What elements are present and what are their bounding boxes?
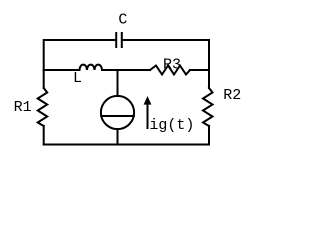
resistor R1 bbox=[38, 88, 48, 126]
svg-text:L: L bbox=[73, 70, 82, 87]
wire bottom rail bbox=[44, 144, 209, 146]
wire middle-center (inductor to R3, with junction to current source) bbox=[102, 69, 150, 71]
resistor R2 bbox=[203, 88, 213, 126]
wire middle-left (node A to inductor) bbox=[44, 69, 80, 71]
inductor L bbox=[80, 65, 103, 70]
wire middle-right (R3 to node B) bbox=[190, 69, 209, 71]
resistor R3 bbox=[150, 66, 190, 75]
svg-text:C: C bbox=[118, 12, 127, 29]
wire right-bottom (R2 to bottom rail) bbox=[208, 126, 210, 145]
wire top-right (capacitor to node B) bbox=[123, 40, 209, 88]
wire current source top stub bbox=[117, 70, 119, 96]
svg-text:ig(t): ig(t) bbox=[149, 117, 194, 134]
svg-text:R3: R3 bbox=[163, 57, 181, 74]
capacitor C plates bbox=[116, 33, 122, 47]
wire current source bottom stub bbox=[117, 129, 119, 144]
svg-text:R2: R2 bbox=[223, 87, 241, 104]
wire top-left (node A to capacitor) bbox=[44, 40, 116, 88]
current source symbol (circle with bar) bbox=[101, 96, 134, 129]
wire left-bottom (R1 to bottom rail) bbox=[43, 126, 45, 145]
current direction arrow for ig(t) bbox=[144, 96, 152, 128]
svg-text:R1: R1 bbox=[14, 99, 32, 116]
